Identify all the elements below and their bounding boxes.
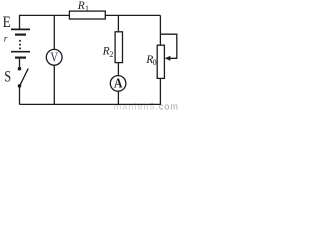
svg-text:2: 2 (109, 50, 113, 59)
svg-text:manfen5.com: manfen5.com (114, 102, 179, 110)
svg-text:V: V (50, 50, 58, 65)
svg-text:E: E (3, 14, 11, 31)
svg-text:r: r (4, 35, 8, 45)
svg-text:S: S (4, 69, 11, 86)
svg-text:0: 0 (153, 58, 157, 67)
svg-text:A: A (114, 77, 123, 92)
svg-text:1: 1 (85, 4, 89, 13)
svg-text:R: R (77, 0, 85, 12)
